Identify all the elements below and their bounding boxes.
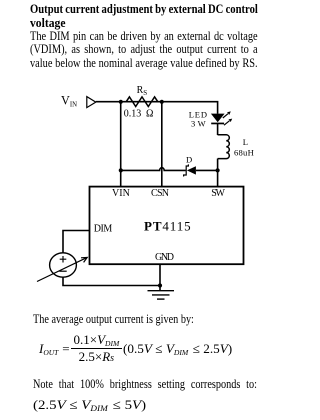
body line 3 [30,57,258,70]
note line 2 [33,398,146,415]
inductor L coil [218,135,230,159]
source adjustment arrow [37,257,87,281]
node E junction dot (ground rail) [158,283,162,287]
body line 1 [30,30,258,43]
wire DIM pin to source top [63,231,90,253]
source VDIM circle [50,253,77,277]
node C junction dot (diode-VIN) [119,168,123,172]
title line 2 [30,17,65,30]
svg-text:DIM: DIM [94,224,113,235]
diode D (schottky) [184,164,196,176]
wire inductor to SW pin [217,159,219,187]
svg-text:Ω: Ω [146,109,153,120]
svg-text:PT4115: PT4115 [144,219,191,234]
title line 1 [30,3,258,16]
svg-text:0.13: 0.13 [124,109,142,120]
svg-text:RS: RS [137,85,148,97]
svg-text:D: D [186,155,192,165]
svg-text:CSN: CSN [151,188,169,199]
source minus sign [59,270,66,272]
note line 1 [33,378,257,391]
wire diode anode segment with hop over CSN [121,168,186,171]
svg-text:SW: SW [211,188,225,199]
wire LED to inductor [217,124,219,135]
wire top rail node A to LED corner [121,102,218,114]
node D junction dot (diode-SW) [216,168,220,172]
IC U1 PT4115 box [90,187,244,265]
svg-text:68uH: 68uH [234,148,254,158]
svg-text:L: L [243,137,248,147]
source plus sign [60,256,67,263]
svg-text:GND: GND [155,252,174,263]
wire source bottom to ground rail [63,277,160,285]
wire VIN column [120,102,122,187]
ground symbol [148,291,175,299]
node B junction dot (CSN top) [160,100,164,104]
wire VIN input to node A [96,101,121,103]
node A junction dot [119,100,123,104]
input terminal triangle [87,97,96,108]
svg-text:VIN: VIN [61,94,77,109]
wire diode cathode to SW node [196,169,218,171]
resistor RS zigzag [122,97,162,107]
wire CSN column [161,102,163,187]
svg-text:3W: 3W [191,118,206,128]
body line 2 [30,43,258,56]
LED symbol [211,111,232,125]
wire GND pin down [159,264,161,290]
formula IOUT [0,0,284,1]
svg-text:VIN: VIN [112,188,130,199]
caption: average output current [33,313,194,326]
